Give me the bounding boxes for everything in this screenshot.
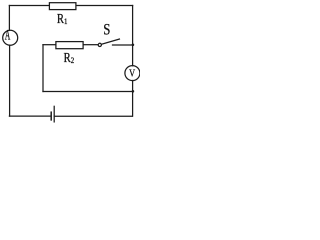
wire bottom-right segment: [54, 115, 132, 117]
wire R2 branch left stub: [43, 44, 56, 46]
node junction at voltmeter/inner bottom: [132, 90, 135, 93]
resistor R1: [49, 3, 76, 10]
svg-text:A: A: [5, 27, 11, 43]
voltmeter V: [125, 66, 140, 81]
svg-text:R1: R1: [57, 11, 68, 26]
battery negative plate: [50, 112, 52, 120]
svg-text:S: S: [103, 21, 110, 39]
wire right lower: [132, 81, 134, 117]
wire left lower: [9, 45, 11, 116]
switch S pivot circle: [98, 43, 101, 46]
wire R2 to switch: [83, 44, 97, 46]
wire inner bottom: [43, 91, 133, 93]
switch right terminal wire: [113, 44, 133, 46]
battery positive plate: [53, 106, 55, 122]
node junction at switch/right wire: [132, 44, 135, 47]
svg-text:R2: R2: [64, 50, 75, 65]
ammeter A: [3, 30, 18, 45]
wire top-left segment: [9, 5, 48, 7]
svg-text:V: V: [129, 67, 135, 79]
wire inner-left vertical: [42, 45, 44, 92]
wire left upper: [8, 6, 10, 31]
wire bottom-left segment: [9, 115, 50, 117]
switch S blade: [102, 39, 120, 44]
wire right upper: [132, 6, 134, 66]
wire top-right segment: [77, 5, 133, 7]
resistor R2: [56, 42, 83, 49]
